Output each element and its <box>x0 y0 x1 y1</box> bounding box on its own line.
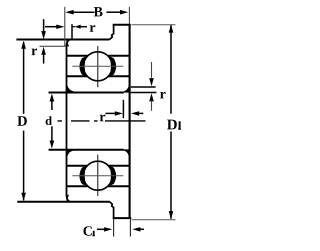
D1 extension line bottom <box>132 219 176 221</box>
right r bore extension line <box>131 92 157 94</box>
label B <box>94 7 103 16</box>
ball top vertical centerline <box>97 46 99 87</box>
raceway crescent bottom-left <box>79 166 86 186</box>
dimension D line lower segment with down arrowhead <box>23 131 25 201</box>
flange undercut notch top <box>109 25 114 40</box>
outer ring shoulder bottom-right segment <box>108 185 130 187</box>
outer ring shoulder top-right segment <box>108 55 130 57</box>
B extension line right (thin above flange) <box>128 7 130 24</box>
label D1 <box>167 120 177 130</box>
ball bottom vertical centerline <box>97 155 99 196</box>
outer ring shoulder bottom-left segment <box>66 185 88 187</box>
inner ring land top-right segment <box>108 75 130 77</box>
ball top horizontal centerline <box>72 65 123 67</box>
B extension line left <box>64 7 66 47</box>
label C1 <box>83 226 91 235</box>
label D1 subscript bar <box>179 121 181 128</box>
inner ring bore top-left chamfer <box>67 86 73 92</box>
top r dimension right arrow (points left at tick) <box>72 26 75 28</box>
inner ring bore bottom line with d extension <box>49 149 124 151</box>
flange top surface <box>113 24 131 26</box>
ball top <box>83 52 112 81</box>
inner ring bore bottom-right chamfer <box>124 150 129 155</box>
inner ring bore bottom-left chamfer <box>67 150 73 155</box>
middle r tick (bore chamfer extension) <box>122 100 124 118</box>
outer ring OD top surface with D extension <box>16 39 109 41</box>
inner ring land bottom-left segment <box>66 165 87 167</box>
axis centerline dashes <box>58 120 146 122</box>
dimension D1 line upper segment with up arrowhead <box>170 25 172 114</box>
C1 extension line right (thin below flange) <box>129 219 131 236</box>
dimension D line upper segment with up arrowhead <box>23 42 25 114</box>
dimension B left arrowhead <box>65 10 73 15</box>
dimension B right arrowhead <box>120 10 128 15</box>
right r upper arrow (points down) <box>151 62 153 78</box>
left r dimension lower arrow (points up at chamfer line) <box>41 47 46 55</box>
inner ring land top-left segment <box>66 75 87 77</box>
inner ring land bottom-right segment <box>108 165 130 167</box>
label r (left) <box>32 48 38 55</box>
D1 extension line top <box>132 24 176 26</box>
bottom-left corner chamfer fill <box>66 194 69 201</box>
ball bottom horizontal centerline <box>72 175 123 177</box>
middle r dimension left arrow (points right at tick) <box>106 112 116 114</box>
label d <box>46 116 52 125</box>
middle r dimension right arrow (points left at face) <box>131 111 139 116</box>
ball bottom <box>83 161 112 190</box>
dimension D1 line lower segment with down arrowhead <box>170 132 172 219</box>
label C1 subscript bar <box>93 231 95 236</box>
label r (middle) <box>100 115 106 122</box>
raceway crescent top-left <box>79 57 86 77</box>
top r dimension tick (chamfer-end extension) <box>71 24 73 38</box>
right r chamfer-end extension line <box>131 86 156 88</box>
right r lower arrow (points up) <box>149 93 154 101</box>
outer ring OD bottom surface with D extension <box>17 201 109 203</box>
flange bottom surface <box>113 217 132 219</box>
dimension B line left segment <box>72 11 95 13</box>
top r dimension left arrow (points right at face ext line) <box>45 26 57 28</box>
left r dimension upper arrow (points down at OD) <box>43 19 45 31</box>
bearing left face line <box>66 40 69 202</box>
flange undercut notch bottom <box>109 201 114 218</box>
label r (right) <box>160 92 166 99</box>
raceway crescent bottom-right <box>109 166 116 186</box>
dimension B line right segment <box>106 11 121 13</box>
C1 dimension left arrow (points right) <box>97 228 106 230</box>
outer ring shoulder top-left segment <box>66 55 88 57</box>
label D <box>17 116 27 126</box>
C1 extension line left (flange face extended) <box>113 219 115 237</box>
left r chamfer extension stub <box>40 45 67 47</box>
label r (top) <box>90 25 96 32</box>
inner ring bore top-right chamfer <box>124 87 129 92</box>
C1 dimension right arrow (points left) <box>132 227 140 232</box>
dimension d line upper segment with up arrowhead <box>51 100 53 110</box>
top-left corner chamfer fill <box>66 40 69 47</box>
raceway crescent top-right <box>109 57 116 77</box>
dimension d line lower segment with down arrowhead <box>51 126 53 141</box>
bearing right face / flange back line (thick part) <box>129 24 131 219</box>
inner ring bore top line with d extension <box>49 92 124 94</box>
